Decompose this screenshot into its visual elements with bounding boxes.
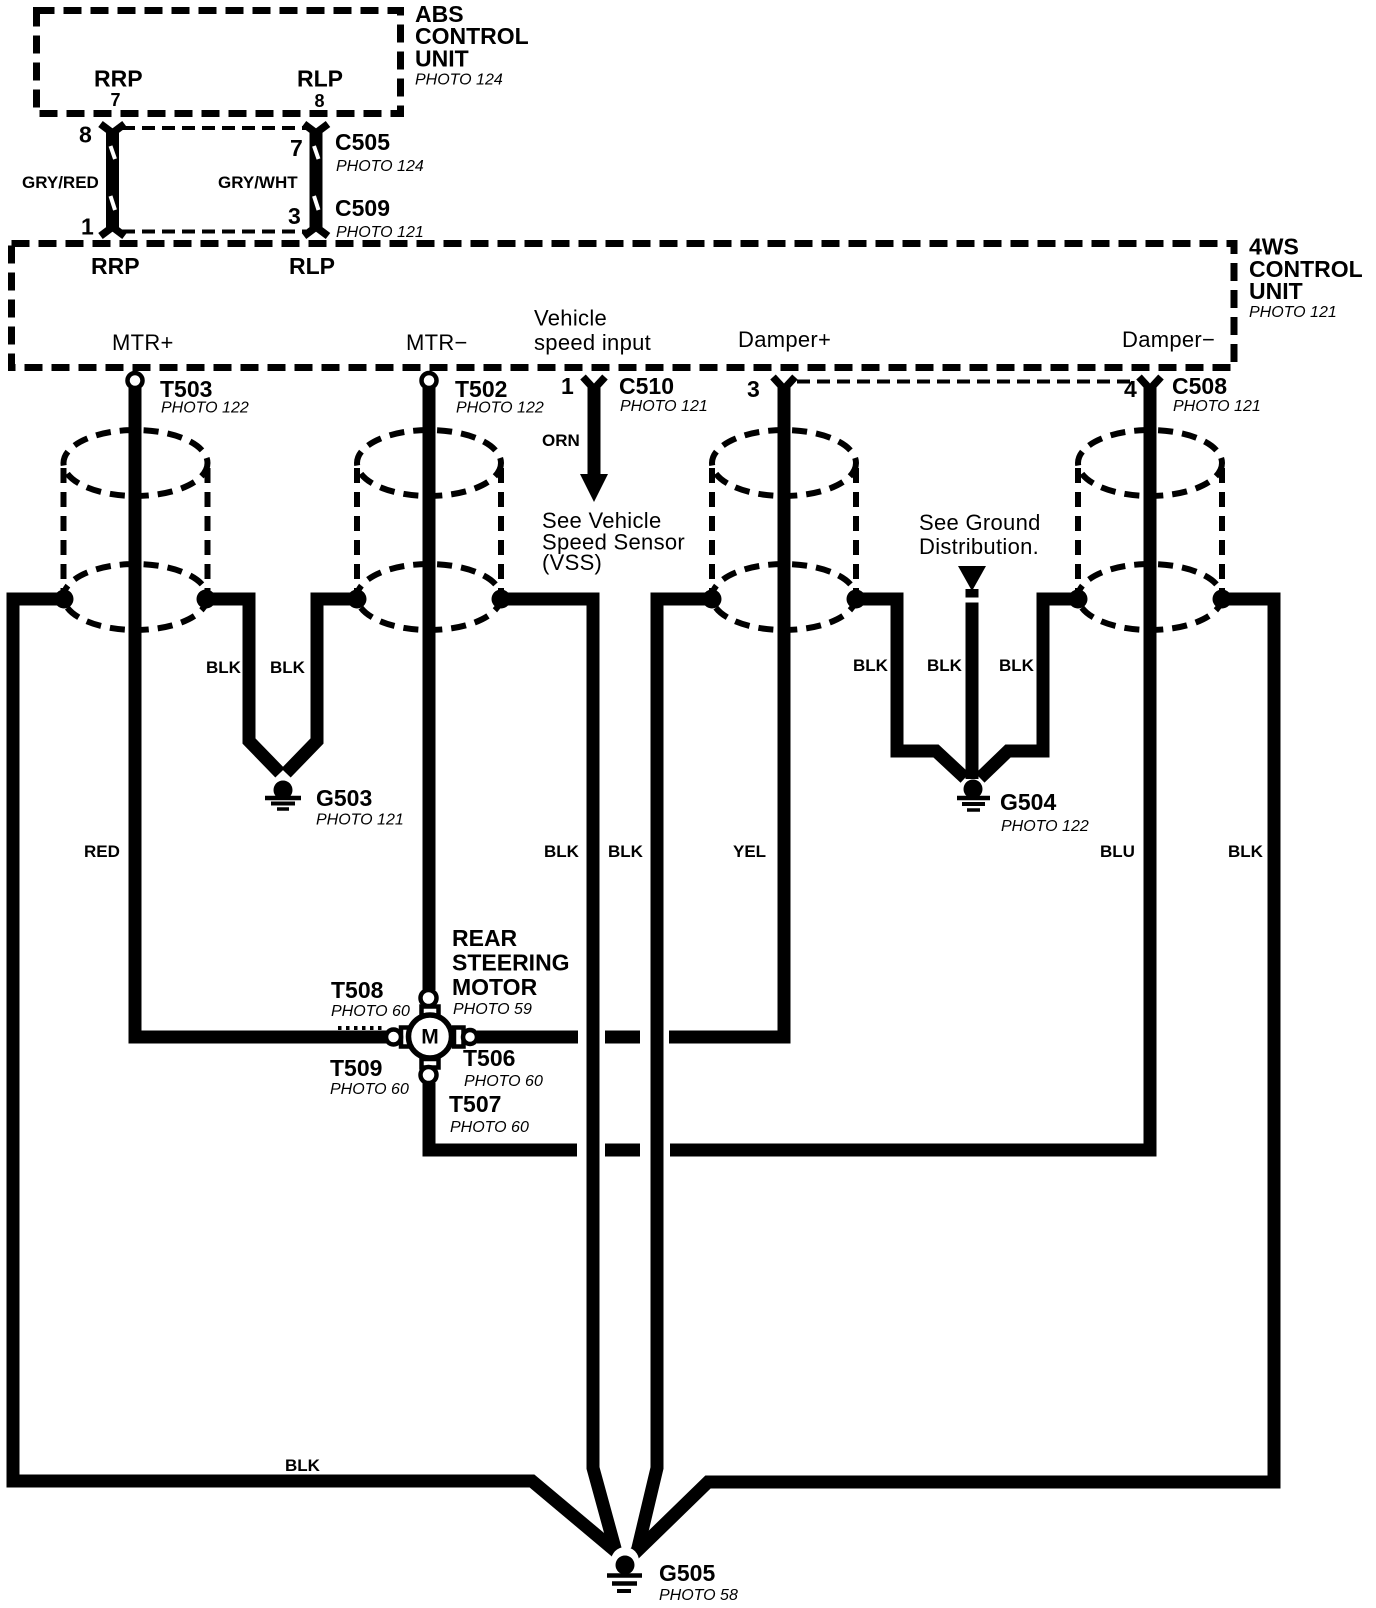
junction dot Damper- shield left bbox=[1069, 590, 1088, 609]
junction dot Damper+ shield left bbox=[703, 590, 722, 609]
note See Ground Distribution bbox=[919, 510, 1041, 559]
svg-text:MTR−: MTR− bbox=[406, 330, 468, 355]
svg-text:G505: G505 bbox=[659, 1560, 715, 1586]
svg-text:Distribution.: Distribution. bbox=[919, 534, 1039, 559]
svg-text:C505: C505 bbox=[335, 129, 390, 155]
svg-text:PHOTO 59: PHOTO 59 bbox=[453, 1001, 532, 1018]
svg-text:T502: T502 bbox=[455, 376, 507, 402]
wire BLK (Damper- shield to G504) bbox=[980, 599, 1080, 778]
svg-text:GRY/WHT: GRY/WHT bbox=[218, 173, 298, 192]
ground G503 bbox=[265, 781, 404, 829]
junction dot MTR- shield left bbox=[348, 590, 367, 609]
junction dot Damper- shield right bbox=[1213, 590, 1232, 609]
svg-text:C509: C509 bbox=[335, 195, 390, 221]
svg-text:Vehicle: Vehicle bbox=[534, 306, 607, 331]
svg-text:REAR: REAR bbox=[452, 925, 518, 951]
svg-text:T503: T503 bbox=[160, 376, 212, 402]
svg-text:BLU: BLU bbox=[1100, 842, 1135, 861]
wire GRY/RED (shielded bar, ABS RRP to 4WS RRP) bbox=[101, 124, 125, 236]
terminal T506 label bbox=[463, 1045, 543, 1090]
wire BLK (MTR+ shield to G503) bbox=[204, 599, 280, 773]
connector C508 pin 3 bbox=[747, 376, 795, 402]
label C505 bbox=[335, 129, 424, 175]
terminal T507 label bbox=[449, 1091, 529, 1136]
svg-text:1: 1 bbox=[81, 214, 94, 240]
svg-text:MOTOR: MOTOR bbox=[452, 974, 538, 1000]
wire BLK (Damper+ shield to G504) bbox=[854, 599, 965, 778]
svg-text:3: 3 bbox=[288, 203, 301, 229]
junction dot Damper+ shield right bbox=[847, 590, 866, 609]
label 4WS CONTROL UNIT bbox=[1249, 234, 1363, 322]
svg-text:T508: T508 bbox=[331, 977, 384, 1003]
svg-text:G503: G503 bbox=[316, 785, 372, 811]
wire RED (left outer, MTR+ shield to G505) bbox=[13, 599, 619, 1554]
wire Damper- BLU (pin4 to motor bottom) bbox=[429, 386, 1150, 1150]
svg-text:PHOTO 60: PHOTO 60 bbox=[464, 1073, 543, 1090]
svg-text:PHOTO 124: PHOTO 124 bbox=[415, 72, 503, 89]
pin Vehicle speed input bbox=[534, 306, 651, 356]
svg-text:PHOTO 121: PHOTO 121 bbox=[316, 812, 404, 829]
4WS control unit box bbox=[12, 244, 1235, 368]
rear steering motor label bbox=[452, 925, 570, 1018]
ABS control unit box bbox=[37, 11, 401, 114]
svg-text:RRP: RRP bbox=[94, 66, 143, 92]
svg-text:BLK: BLK bbox=[853, 656, 889, 675]
motor M (rear steering motor) bbox=[386, 990, 477, 1083]
label C509 bbox=[335, 195, 424, 241]
svg-text:speed input: speed input bbox=[534, 330, 651, 355]
wire GRY/WHT (shielded bar, ABS RLP to 4WS RLP) bbox=[304, 124, 328, 236]
svg-text:YEL: YEL bbox=[733, 842, 766, 861]
svg-text:3: 3 bbox=[747, 376, 760, 402]
svg-text:UNIT: UNIT bbox=[1249, 278, 1303, 304]
svg-text:T507: T507 bbox=[449, 1091, 501, 1117]
pin RRP (ABS) bbox=[94, 66, 143, 111]
svg-text:PHOTO 121: PHOTO 121 bbox=[1249, 304, 1337, 321]
svg-text:PHOTO 122: PHOTO 122 bbox=[1001, 818, 1089, 835]
svg-text:See Ground: See Ground bbox=[919, 510, 1041, 535]
ground G505 bbox=[607, 1547, 738, 1604]
svg-text:T509: T509 bbox=[330, 1055, 382, 1081]
svg-text:1: 1 bbox=[561, 373, 574, 399]
svg-text:BLK: BLK bbox=[927, 656, 963, 675]
wire BLK (ground distribution to G504) bbox=[958, 566, 986, 779]
svg-text:RRP: RRP bbox=[91, 253, 140, 279]
svg-text:PHOTO 60: PHOTO 60 bbox=[450, 1119, 529, 1136]
svg-text:MTR+: MTR+ bbox=[112, 330, 174, 355]
wire BLK (right outer, Damper- shield to G505) bbox=[634, 599, 1274, 1554]
note See Vehicle Speed Sensor (VSS) bbox=[542, 508, 685, 575]
terminal T509 label bbox=[330, 1055, 409, 1098]
svg-text:PHOTO 121: PHOTO 121 bbox=[1173, 398, 1261, 415]
svg-text:BLK: BLK bbox=[206, 658, 242, 677]
shield cylinder MTR+ bbox=[64, 430, 208, 630]
svg-text:PHOTO 60: PHOTO 60 bbox=[330, 1081, 409, 1098]
svg-text:Damper+: Damper+ bbox=[738, 327, 831, 352]
svg-text:M: M bbox=[421, 1026, 439, 1049]
ground G504 bbox=[957, 780, 1089, 836]
svg-text:UNIT: UNIT bbox=[415, 46, 469, 72]
wire MTR+ (T503 to motor left) bbox=[135, 388, 386, 1037]
wire BLK (MTR- shield to G503) bbox=[286, 599, 359, 773]
svg-text:ORN: ORN bbox=[542, 431, 580, 450]
connector C508 line bbox=[797, 380, 1137, 384]
svg-text:C510: C510 bbox=[619, 373, 674, 399]
svg-text:STEERING: STEERING bbox=[452, 950, 570, 976]
svg-text:T506: T506 bbox=[463, 1045, 515, 1071]
connector C510 pin 1 bbox=[561, 373, 708, 415]
svg-text:RED: RED bbox=[84, 842, 120, 861]
svg-text:PHOTO 60: PHOTO 60 bbox=[331, 1003, 410, 1020]
svg-text:G504: G504 bbox=[1000, 789, 1056, 815]
svg-text:PHOTO 124: PHOTO 124 bbox=[336, 158, 424, 175]
terminal T502 bbox=[422, 373, 544, 417]
svg-text:4: 4 bbox=[1124, 376, 1137, 402]
svg-text:(VSS): (VSS) bbox=[542, 550, 602, 575]
connector C505 line bbox=[122, 126, 306, 130]
shield cylinder Damper- bbox=[1078, 430, 1222, 630]
shield cylinder Damper+ bbox=[712, 430, 856, 630]
svg-text:BLK: BLK bbox=[999, 656, 1035, 675]
svg-text:PHOTO 58: PHOTO 58 bbox=[659, 1587, 738, 1604]
svg-text:8: 8 bbox=[315, 91, 325, 111]
wire ORN arrow to VSS bbox=[542, 386, 608, 502]
pin RLP (ABS) bbox=[297, 66, 343, 112]
terminal T503 bbox=[128, 373, 249, 417]
wire BLK (MTR- shield to G505) bbox=[499, 599, 616, 1552]
svg-text:8: 8 bbox=[79, 122, 92, 148]
svg-text:BLK: BLK bbox=[285, 1456, 321, 1475]
svg-text:BLK: BLK bbox=[608, 842, 644, 861]
junction dot MTR+ shield right bbox=[197, 590, 216, 609]
svg-text:PHOTO 121: PHOTO 121 bbox=[620, 398, 708, 415]
svg-text:PHOTO 122: PHOTO 122 bbox=[161, 400, 249, 417]
svg-text:PHOTO 122: PHOTO 122 bbox=[456, 400, 544, 417]
svg-text:BLK: BLK bbox=[1228, 842, 1264, 861]
wire MTR- (T502 to motor top) bbox=[423, 388, 436, 990]
svg-text:GRY/RED: GRY/RED bbox=[22, 173, 99, 192]
svg-text:RLP: RLP bbox=[289, 253, 335, 279]
svg-text:BLK: BLK bbox=[544, 842, 580, 861]
svg-text:Damper−: Damper− bbox=[1122, 327, 1215, 352]
svg-text:7: 7 bbox=[111, 90, 121, 110]
wire BLK (Damper+ shield to G505) bbox=[637, 599, 714, 1552]
svg-text:RLP: RLP bbox=[297, 66, 343, 92]
label ABS CONTROL UNIT bbox=[415, 1, 529, 89]
junction dot MTR- shield right bbox=[492, 590, 511, 609]
svg-text:C508: C508 bbox=[1172, 373, 1227, 399]
wire Damper+ YEL (pin3 to motor right) bbox=[477, 386, 784, 1037]
connector C509 line bbox=[122, 230, 306, 234]
svg-text:7: 7 bbox=[290, 135, 303, 161]
svg-text:PHOTO 121: PHOTO 121 bbox=[336, 224, 424, 241]
terminal T508 label bbox=[331, 977, 410, 1028]
svg-text:BLK: BLK bbox=[270, 658, 306, 677]
connector C508 pin 4 bbox=[1124, 373, 1261, 415]
shield cylinder MTR- bbox=[357, 430, 501, 630]
junction dot MTR+ shield left bbox=[55, 590, 74, 609]
